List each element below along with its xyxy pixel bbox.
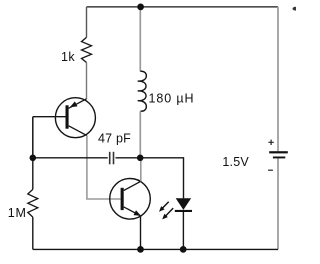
LED D1 triangle [176, 198, 191, 210]
wire Q2 emitter lead [140, 216, 142, 250]
svg-text:180 µH: 180 µH [149, 92, 195, 106]
inductor L1 180uH coil [138, 71, 147, 111]
capacitor C1 47pF plates [109, 152, 111, 165]
wire left branch down to node B [32, 117, 34, 158]
transistor Q2 collector diagonal [124, 181, 141, 190]
LED D1 emission arrow 1 [161, 202, 169, 210]
transistor Q1 emitter diagonal [69, 99, 87, 109]
transistor Q1 emitter arrow (PNP, points to bar) [70, 101, 78, 107]
wire L-link Q1 collector to Q2 base (gray) [87, 136, 121, 199]
wire inductor upper lead [139, 7, 141, 71]
transistor Q2 emitter diagonal [124, 207, 141, 216]
svg-text:47 pF: 47 pF [98, 132, 131, 146]
wire cap row right segment [116, 157, 141, 159]
node E junction dot bottom LED [180, 246, 187, 253]
wire right rail lower (battery - to bottom) [277, 158, 279, 249]
node B junction dot left (base/1M/cap) [30, 155, 37, 162]
svg-text:1k: 1k [61, 50, 75, 64]
wire 1k to Q1 emitter [86, 63, 88, 100]
node A junction dot top (inductor tap) [137, 4, 144, 11]
node D junction dot bottom left [137, 246, 144, 253]
battery B1 long plate [269, 151, 288, 153]
wire right rail upper (to battery +) [277, 7, 279, 152]
node C junction dot middle (cap/inductor/collector) [137, 155, 144, 162]
wire bottom rail [33, 248, 278, 250]
resistor R2 1M zigzag [32, 158, 34, 190]
battery B1 short plate [273, 157, 285, 159]
transistor Q2 base bar [121, 188, 124, 210]
wire Q2 collector lead (gray) [140, 158, 142, 182]
svg-text:1M: 1M [8, 206, 27, 220]
wire node C to LED branch [140, 158, 183, 199]
transistor Q1 PNP circle [55, 98, 95, 138]
transistor Q2 NPN circle [110, 179, 151, 220]
transistor Q1 collector diagonal [69, 126, 87, 136]
wire inductor lower lead [139, 111, 141, 158]
wire 1M to bottom rail [32, 217, 34, 249]
LED D1 emission arrow 2 [164, 208, 173, 218]
wire Q1 base lead [33, 116, 66, 118]
wire LED to bottom rail [182, 212, 184, 249]
battery B1 plus sign [268, 140, 273, 145]
svg-text:1.5V: 1.5V [222, 155, 249, 169]
wire cap row left segment [33, 157, 108, 159]
transistor Q1 base bar [66, 105, 69, 128]
battery B1 minus sign [268, 169, 273, 171]
LED D1 cathode bar [175, 210, 192, 212]
transistor Q2 emitter arrow (NPN, points out) [134, 210, 142, 216]
resistor R1 1k zigzag [82, 37, 92, 62]
wire 1k branch upper segment [86, 7, 88, 38]
wire top rail [87, 6, 279, 8]
